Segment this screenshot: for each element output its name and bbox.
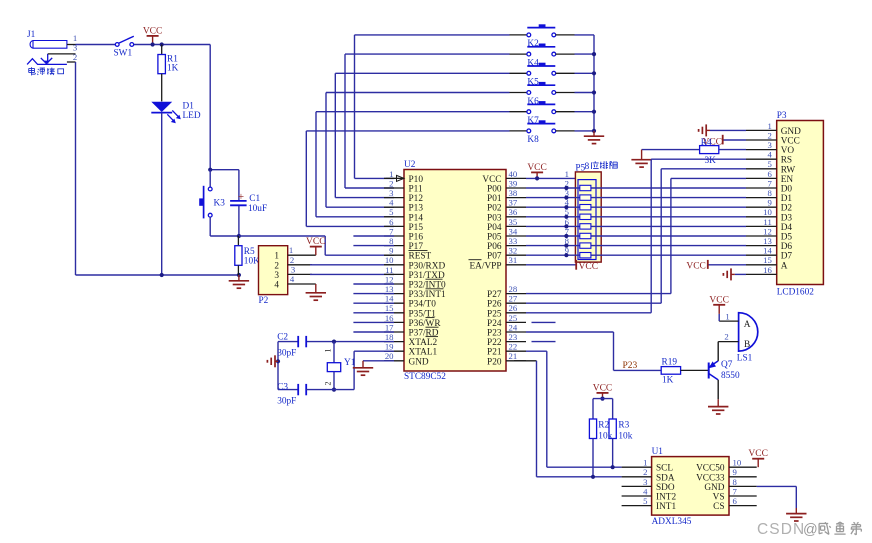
- svg-text:P25: P25: [487, 309, 502, 319]
- ground at C2/C3 (rotated): [267, 355, 278, 367]
- svg-text:16: 16: [385, 313, 394, 323]
- svg-text:9: 9: [389, 246, 393, 256]
- resistor R19 1K: [661, 358, 709, 386]
- wire: U2 P20 to U1 SDA: [514, 361, 622, 477]
- ground at Q7 collector: [708, 399, 728, 414]
- connector P2: [259, 245, 316, 306]
- resistor network P5 resistors: [580, 185, 591, 258]
- svg-text:LCD1602: LCD1602: [777, 287, 815, 297]
- svg-text:Q7: Q7: [721, 360, 733, 370]
- svg-text:17: 17: [385, 322, 394, 332]
- svg-text:1K: 1K: [662, 375, 674, 385]
- wire: J1 pin1 to SW1 and VCC rail to corner above K3: [76, 45, 211, 170]
- svg-text:+: +: [238, 191, 244, 203]
- wire: P2 pin2 to U2 P30/RXD: [310, 264, 394, 266]
- push button K4: [527, 44, 556, 69]
- power VCC (top-left): [143, 26, 163, 44]
- push button K7: [527, 101, 556, 126]
- svg-text:8550: 8550: [721, 371, 740, 381]
- power VCC at U1 pin10: [748, 449, 768, 467]
- svg-text:P20: P20: [487, 357, 502, 367]
- push button K8: [527, 120, 556, 145]
- wire: button K7 to ground bus: [556, 111, 594, 113]
- U2 dangling left stubs (P16,P17,P32..P37 rows): [353, 236, 394, 332]
- junction dot crystal pin2: [332, 388, 336, 392]
- ground at R4 left: [631, 150, 651, 168]
- svg-text:5: 5: [767, 159, 771, 169]
- svg-text:P21: P21: [487, 348, 502, 358]
- svg-text:4: 4: [767, 150, 772, 160]
- watermark CSDN: [757, 521, 861, 538]
- svg-text:18: 18: [385, 332, 394, 342]
- svg-text:P33/INT1: P33/INT1: [409, 290, 447, 300]
- svg-text:J1: J1: [27, 30, 36, 40]
- svg-text:1: 1: [389, 169, 393, 179]
- junction dot K3/C1 bottom (REST net): [237, 234, 241, 238]
- svg-text:RW: RW: [781, 165, 796, 175]
- svg-text:K8: K8: [527, 135, 539, 145]
- power VCC at P2 pin1: [306, 237, 326, 255]
- wire: P3 pin16: [735, 273, 746, 275]
- svg-text:A: A: [781, 261, 788, 271]
- svg-text:P30/RXD: P30/RXD: [409, 261, 446, 271]
- svg-text:25: 25: [509, 313, 518, 323]
- junction dots on bottom rail: [160, 273, 241, 277]
- junction dot VCC R2/R3: [600, 397, 604, 401]
- svg-text:XTAL1: XTAL1: [409, 348, 438, 358]
- svg-text:K3: K3: [214, 198, 226, 208]
- svg-text:11: 11: [763, 217, 771, 227]
- svg-text:39: 39: [509, 178, 518, 188]
- svg-text:P05: P05: [487, 233, 502, 243]
- svg-text:8: 8: [389, 236, 394, 246]
- U1 pin stubs, numbers and names: [622, 458, 757, 512]
- svg-text:D1: D1: [781, 194, 793, 204]
- wire: U2 P23 net to R19: [526, 332, 661, 370]
- svg-text:CS: CS: [713, 502, 724, 512]
- svg-text:P02: P02: [487, 204, 502, 214]
- svg-text:B: B: [744, 340, 750, 350]
- wire: button K8 to ground bus: [556, 130, 594, 132]
- junction dot XTAL2: [332, 340, 336, 344]
- svg-text:4: 4: [290, 274, 295, 284]
- svg-text:27: 27: [509, 294, 518, 304]
- capacitor C3 30pF: [277, 382, 334, 406]
- P3 pin stubs, numbers and names: [746, 121, 801, 275]
- net label P23: [623, 361, 638, 371]
- wire: REST net to U2 pin 9: [239, 236, 394, 255]
- svg-text:D0: D0: [781, 185, 793, 195]
- svg-text:SDO: SDO: [656, 483, 675, 493]
- resistor R2 10k: [589, 419, 612, 441]
- resistor R1 1K: [158, 45, 179, 102]
- wire: P3 pin1 GND: [710, 129, 746, 131]
- svg-text:GND: GND: [704, 483, 724, 493]
- label 8位排阻: [585, 161, 618, 172]
- svg-text:REST: REST: [409, 252, 432, 262]
- svg-text:P2: P2: [259, 296, 269, 306]
- U2 right pin stubs and numbers: [506, 169, 526, 361]
- svg-text:D1: D1: [183, 102, 195, 112]
- svg-text:A: A: [744, 320, 751, 330]
- wire: P2 pin3 to U2 P31/TXD: [310, 273, 394, 275]
- svg-text:23: 23: [509, 332, 518, 342]
- svg-text:1: 1: [565, 169, 569, 179]
- power VCC at LS1 pin1: [709, 295, 729, 321]
- svg-text:10k: 10k: [618, 431, 632, 441]
- svg-text:SDA: SDA: [656, 473, 675, 483]
- U2 right pin names: [469, 175, 502, 367]
- svg-text:7: 7: [733, 486, 738, 496]
- wire: VCC corner into K3/C1 top junction: [210, 169, 239, 171]
- lcd connector P3 body: [777, 111, 824, 297]
- svg-text:10: 10: [733, 458, 742, 468]
- crystal Y1: [324, 342, 356, 390]
- ground at P3 pin1 (rotated): [699, 124, 710, 136]
- wire: D1 cathode down to ground rail: [161, 113, 163, 275]
- svg-text:13: 13: [385, 284, 394, 294]
- svg-text:37: 37: [509, 198, 518, 208]
- U2 active-low bars (REST, TXD, INT0, T1, WR, RD): [409, 250, 444, 336]
- U2 left pin stubs and numbers: [384, 169, 404, 361]
- svg-text:VCC: VCC: [593, 383, 613, 393]
- svg-text:2: 2: [767, 130, 771, 140]
- label 电源接口: [29, 67, 64, 75]
- svg-text:32: 32: [509, 246, 518, 256]
- U2 pin1 input arrow: [386, 175, 404, 181]
- svg-text:P12: P12: [409, 194, 424, 204]
- svg-text:6: 6: [767, 169, 772, 179]
- svg-text:R4: R4: [701, 138, 712, 148]
- svg-text:P14: P14: [409, 213, 424, 223]
- svg-text:VCC: VCC: [482, 175, 501, 185]
- push button K6: [527, 82, 556, 107]
- svg-text:19: 19: [385, 342, 394, 352]
- svg-text:40: 40: [509, 169, 518, 179]
- wire: R3 bottom to SCL: [612, 439, 614, 468]
- resistor network P5 body (8位排阻): [575, 163, 601, 262]
- wire: U2 VCC pin40 to P5 pin1: [526, 169, 575, 179]
- resistor R5 10K: [235, 236, 260, 275]
- wire: U1 GND pin8 to ground: [757, 486, 797, 508]
- svg-text:10: 10: [763, 207, 772, 217]
- junction dot R3/SCL: [611, 465, 615, 469]
- svg-text:C1: C1: [249, 194, 260, 204]
- wire: C2/C3 left common with ground: [277, 342, 279, 390]
- svg-text:C2: C2: [277, 333, 288, 343]
- svg-text:SW1: SW1: [114, 48, 133, 58]
- svg-text:P11: P11: [409, 185, 423, 195]
- svg-text:7: 7: [389, 226, 394, 236]
- svg-text:XTAL2: XTAL2: [409, 338, 438, 348]
- svg-text:P16: P16: [409, 233, 424, 243]
- svg-text:15: 15: [763, 255, 772, 265]
- svg-text:2: 2: [724, 332, 728, 342]
- switch SW1: [114, 36, 134, 58]
- svg-text:2: 2: [324, 382, 333, 386]
- svg-text:@: @: [803, 522, 818, 538]
- svg-text:1K: 1K: [167, 64, 179, 74]
- svg-text:16: 16: [763, 265, 772, 275]
- svg-text:INT1: INT1: [656, 502, 676, 512]
- wire: R2 bottom to SDA: [592, 439, 594, 477]
- svg-text:3: 3: [643, 477, 647, 487]
- svg-text:1: 1: [274, 252, 279, 262]
- buzzer LS1: [718, 312, 758, 364]
- svg-text:P24: P24: [487, 319, 502, 329]
- svg-text:VCC50: VCC50: [696, 464, 725, 474]
- svg-text:3: 3: [291, 264, 295, 274]
- svg-text:38: 38: [509, 188, 518, 198]
- svg-text:C3: C3: [277, 382, 288, 392]
- svg-text:2: 2: [290, 255, 294, 265]
- wire: P3 RS to U2 P25: [526, 159, 746, 313]
- svg-text:U2: U2: [404, 160, 416, 170]
- svg-text:R2: R2: [598, 421, 609, 431]
- svg-text:P34/T0: P34/T0: [409, 300, 437, 310]
- svg-text:GND: GND: [781, 127, 801, 137]
- svg-text:4: 4: [643, 486, 648, 496]
- svg-text:33: 33: [509, 236, 518, 246]
- svg-text:14: 14: [385, 294, 394, 304]
- capacitor C1 10uF: [230, 170, 267, 236]
- svg-text:VCC: VCC: [781, 137, 800, 147]
- svg-text:K7: K7: [527, 116, 539, 126]
- svg-text:10uF: 10uF: [248, 204, 267, 214]
- wire: U2 pin2 to button K4: [345, 54, 527, 188]
- svg-text:RS: RS: [781, 156, 792, 166]
- svg-text:P00: P00: [487, 185, 502, 195]
- svg-text:P23: P23: [623, 361, 638, 371]
- svg-text:CSDN: CSDN: [757, 521, 805, 538]
- wire: data bus P00-P07 from U2 to LCD: [526, 178, 746, 255]
- wire: U2 pin1 to button K2: [355, 35, 528, 179]
- svg-text:GND: GND: [409, 357, 429, 367]
- svg-text:R19: R19: [662, 358, 678, 368]
- svg-text:13: 13: [763, 236, 772, 246]
- svg-text:1: 1: [643, 458, 647, 468]
- svg-text:4: 4: [274, 281, 279, 291]
- svg-text:36: 36: [509, 207, 518, 217]
- svg-text:5: 5: [389, 207, 393, 217]
- wire: P3 RW to U2 P26: [526, 169, 746, 303]
- svg-text:P22: P22: [487, 338, 502, 348]
- svg-text:1: 1: [289, 245, 293, 255]
- accelerometer U1 ADXL345 body: [652, 447, 729, 527]
- svg-text:LS1: LS1: [737, 354, 753, 364]
- transistor Q7 8550: [709, 342, 740, 400]
- svg-text:VS: VS: [713, 493, 725, 503]
- wire: U2 pin4 to button K6: [326, 93, 527, 208]
- svg-text:EA/VPP: EA/VPP: [469, 261, 501, 271]
- svg-text:INT2: INT2: [656, 493, 676, 503]
- wire: button K6 to ground bus: [556, 92, 594, 94]
- svg-text:P15: P15: [409, 223, 424, 233]
- wire: button K4 to ground bus: [556, 53, 594, 55]
- svg-text:P04: P04: [487, 223, 502, 233]
- svg-text:2: 2: [274, 261, 279, 271]
- svg-text:21: 21: [509, 351, 518, 361]
- svg-text:K2: K2: [527, 39, 539, 49]
- mcu U2 STC89C52 body: [404, 160, 506, 382]
- svg-text:VCC: VCC: [143, 26, 163, 36]
- svg-text:6: 6: [389, 217, 394, 227]
- svg-text:1: 1: [725, 312, 729, 322]
- svg-text:8: 8: [585, 162, 590, 172]
- svg-text:VCC: VCC: [709, 295, 729, 305]
- svg-text:D3: D3: [781, 213, 793, 223]
- svg-text:1: 1: [73, 33, 77, 43]
- svg-text:P07: P07: [487, 252, 502, 262]
- svg-text:K5: K5: [527, 78, 539, 88]
- svg-text:8: 8: [733, 477, 738, 487]
- resistor R3 10k: [609, 419, 633, 441]
- svg-text:VCC: VCC: [579, 262, 599, 272]
- svg-text:12: 12: [385, 274, 394, 284]
- wire: button K2 to ground bus: [556, 34, 594, 36]
- svg-text:30pF: 30pF: [277, 348, 296, 358]
- wire: VCC to R2 and R3 tops: [593, 399, 613, 419]
- junction dots on button ground bus: [592, 52, 596, 133]
- svg-text:14: 14: [763, 246, 772, 256]
- svg-text:D4: D4: [781, 223, 793, 233]
- svg-text:3: 3: [767, 140, 771, 150]
- svg-text:26: 26: [509, 303, 518, 313]
- power VCC at P3 pin15 (rotated): [686, 260, 707, 272]
- ground at P2 pin4: [306, 284, 326, 300]
- svg-text:SCL: SCL: [656, 464, 673, 474]
- U2 left pin names: [409, 175, 447, 367]
- svg-text:12: 12: [763, 226, 772, 236]
- power VCC at P3 pin2 (rotated): [702, 135, 722, 148]
- svg-text:K6: K6: [527, 97, 539, 107]
- svg-text:EN: EN: [781, 175, 794, 185]
- svg-text:STC89C52: STC89C52: [404, 372, 446, 382]
- svg-text:1: 1: [767, 121, 771, 131]
- svg-text:3: 3: [73, 43, 77, 53]
- resistor R4 3K: [642, 138, 746, 166]
- svg-text:U1: U1: [652, 447, 664, 457]
- svg-text:VCC: VCC: [306, 237, 326, 247]
- svg-text:2: 2: [389, 178, 393, 188]
- wire: U2 pin6 to button K8: [306, 131, 527, 227]
- power VCC at EA/VPP (rotated): [576, 260, 598, 272]
- svg-text:2: 2: [643, 467, 647, 477]
- junction dot K3/C1 top: [208, 168, 212, 172]
- wire: P3 pin2 VCC: [723, 139, 746, 141]
- ground at U1 pin8: [786, 508, 806, 521]
- junction dot R2/SDA: [591, 475, 595, 479]
- svg-text:R3: R3: [618, 421, 629, 431]
- LED D1: [151, 102, 201, 124]
- svg-text:34: 34: [509, 226, 518, 236]
- svg-text:P06: P06: [487, 242, 502, 252]
- svg-text:D6: D6: [781, 242, 793, 252]
- svg-text:P03: P03: [487, 213, 502, 223]
- wire: U2 pin5 to button K7: [316, 112, 527, 217]
- wire: U2 P21 to U1 SCL: [526, 351, 622, 467]
- ground at P3 pin16 (rotated): [723, 268, 734, 280]
- svg-text:8: 8: [767, 188, 772, 198]
- svg-text:P13: P13: [409, 204, 424, 214]
- wire: EA/VPP to VCC: [526, 264, 576, 266]
- svg-text:P3: P3: [777, 111, 787, 121]
- svg-text:P23: P23: [487, 329, 502, 339]
- svg-text:28: 28: [509, 284, 518, 294]
- svg-text:VCC: VCC: [748, 449, 768, 459]
- junction dot pin40: [535, 176, 539, 180]
- svg-text:1: 1: [324, 349, 333, 353]
- svg-text:9: 9: [767, 198, 771, 208]
- svg-text:10k: 10k: [598, 431, 612, 441]
- svg-text:LED: LED: [183, 111, 201, 121]
- svg-text:P01: P01: [487, 194, 502, 204]
- connector J1 (power jack): [27, 30, 77, 64]
- svg-text:D2: D2: [781, 204, 793, 214]
- capacitor C2 30pF: [277, 333, 306, 359]
- svg-text:4: 4: [389, 198, 394, 208]
- svg-text:15: 15: [385, 303, 394, 313]
- push button K5: [527, 63, 556, 88]
- svg-text:D7: D7: [781, 252, 793, 262]
- svg-text:VCC33: VCC33: [696, 473, 725, 483]
- svg-text:10K: 10K: [244, 257, 260, 267]
- wire: P3 pin15 A to VCC: [708, 264, 746, 266]
- svg-text:6: 6: [733, 496, 738, 506]
- wire: P3 EN to U2 P27: [526, 178, 746, 293]
- ground at bottom rail under R5: [229, 275, 249, 288]
- svg-text:VCC: VCC: [686, 261, 706, 271]
- power VCC at U2 pin40: [527, 163, 547, 179]
- push button K2: [527, 24, 556, 49]
- svg-text:31: 31: [509, 255, 518, 265]
- wire: XTAL2 row: [306, 341, 394, 343]
- svg-text:11: 11: [385, 265, 393, 275]
- svg-text:D5: D5: [781, 233, 793, 243]
- svg-text:5: 5: [643, 496, 647, 506]
- wire: U2 pin3 to button K5: [335, 73, 527, 197]
- wire: crystal pin2 to XTAL1: [334, 351, 394, 389]
- svg-text:K4: K4: [527, 58, 539, 68]
- svg-text:3: 3: [274, 271, 279, 281]
- svg-text:ADXL345: ADXL345: [652, 517, 692, 527]
- junction dots at VCC/R1 top: [151, 42, 164, 46]
- wire: U2 GND pin to ground: [363, 360, 394, 362]
- svg-text:VCC: VCC: [527, 163, 547, 173]
- push button K3: [199, 170, 239, 236]
- wire: button K5 to ground bus: [556, 72, 594, 74]
- svg-text:35: 35: [509, 217, 518, 227]
- power VCC above R2/R3: [593, 383, 613, 398]
- svg-text:9: 9: [733, 467, 737, 477]
- ground at U2 GND pin: [353, 361, 373, 375]
- svg-text:P10: P10: [409, 175, 424, 185]
- svg-text:P26: P26: [487, 300, 502, 310]
- svg-text:30pF: 30pF: [277, 396, 296, 406]
- wire: buttons common ground bus vertical: [593, 35, 595, 131]
- svg-text:3: 3: [389, 188, 393, 198]
- svg-text:VO: VO: [781, 146, 795, 156]
- svg-text:22: 22: [509, 342, 518, 352]
- svg-text:3K: 3K: [705, 156, 717, 166]
- junction dot C2/C3 common: [276, 359, 280, 363]
- ground for buttons: [584, 131, 604, 144]
- svg-text:7: 7: [767, 178, 772, 188]
- svg-text:10: 10: [385, 255, 394, 265]
- U2 dangling right stubs (P24, P22): [532, 322, 556, 341]
- svg-text:2: 2: [73, 52, 77, 62]
- svg-text:R5: R5: [244, 247, 255, 257]
